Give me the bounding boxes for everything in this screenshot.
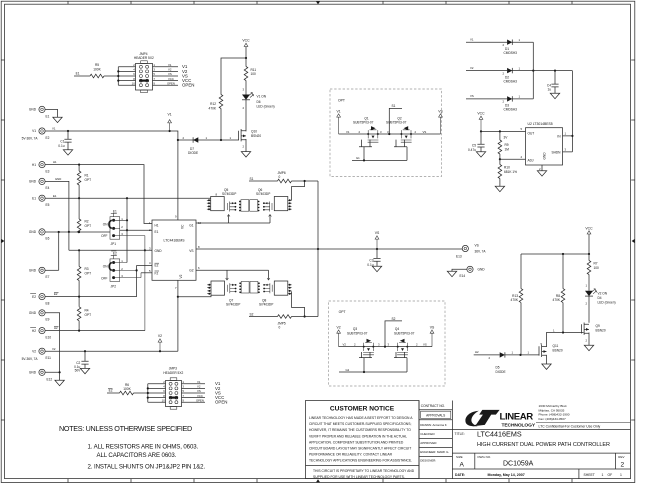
svg-text:OFF: OFF — [101, 276, 107, 280]
svg-text:Q11: Q11 — [553, 344, 559, 348]
svg-text:SIZE: SIZE — [456, 455, 463, 459]
svg-text:A: A — [460, 461, 465, 468]
wire E1 riser to pin2 — [126, 198, 128, 262]
wire 3V rail — [480, 127, 526, 139]
svg-text:H1: H1 — [32, 163, 36, 167]
terminal E5 — [32, 195, 50, 207]
svg-text:OF: OF — [608, 473, 613, 477]
svg-text:1u: 1u — [547, 87, 551, 91]
transistor Q11 — [539, 333, 563, 365]
svg-text:Fax: (408)434-0507: Fax: (408)434-0507 — [539, 417, 566, 421]
svg-text:HEADER 5X2: HEADER 5X2 — [163, 371, 183, 375]
svg-text:CMDSH3: CMDSH3 — [504, 79, 518, 83]
svg-text:R7: R7 — [594, 261, 598, 265]
node VS flag (OPT2) — [430, 325, 435, 346]
svg-text:D5: D5 — [496, 365, 500, 369]
svg-text:JP1: JP1 — [111, 242, 117, 246]
svg-text:GND: GND — [29, 371, 37, 375]
wire — [45, 109, 57, 117]
svg-text:E14: E14 — [460, 274, 466, 278]
svg-text:V2 ON: V2 ON — [598, 292, 608, 296]
wire E2bar riser — [136, 265, 138, 296]
resistor R1 — [77, 165, 91, 199]
svg-text:V1: V1 — [470, 37, 474, 41]
svg-text:OPEN: OPEN — [182, 83, 194, 88]
svg-text:R11: R11 — [251, 68, 257, 72]
wire Q5 right bus — [292, 181, 305, 200]
svg-text:OPT: OPT — [85, 313, 92, 317]
svg-text:E1: E1 — [155, 230, 159, 234]
svg-text:VCC: VCC — [197, 394, 203, 398]
svg-text:V2: V2 — [343, 342, 347, 346]
svg-text:V1: V1 — [337, 109, 341, 113]
node S2 stub (OPT) — [385, 317, 402, 347]
capacitor C4 — [547, 71, 559, 94]
svg-text:SUB75P03-07: SUB75P03-07 — [347, 331, 368, 335]
svg-text:1: 1 — [602, 473, 604, 477]
svg-text:VCC: VCC — [168, 77, 174, 81]
svg-text:E8: E8 — [46, 301, 50, 305]
svg-text:E2: E2 — [109, 389, 113, 393]
svg-text:V1: V1 — [32, 129, 36, 133]
svg-text:S2: S2 — [250, 312, 254, 316]
svg-text:R9: R9 — [505, 143, 509, 147]
svg-text:E12: E12 — [47, 378, 53, 382]
node V1 flag — [168, 113, 172, 131]
diode D1 — [466, 37, 533, 55]
notes text — [59, 424, 205, 471]
wire H2/V2 line — [45, 326, 145, 332]
IC U2 LT3014BES5 — [526, 122, 573, 171]
svg-text:E2: E2 — [113, 252, 117, 256]
svg-text:DIODE: DIODE — [188, 151, 198, 155]
svg-text:VC: VC — [181, 224, 185, 229]
wire pin7 V2 riser — [177, 280, 179, 351]
wire U2 in — [571, 71, 573, 152]
node S1 stub (OPT) — [389, 104, 402, 134]
svg-text:E2: E2 — [32, 295, 36, 299]
svg-text:CMDSH3: CMDSH3 — [504, 51, 518, 55]
svg-text:VS: VS — [438, 109, 443, 113]
jumper JP2 — [101, 251, 141, 288]
svg-text:E9: E9 — [46, 318, 50, 322]
svg-text:APPROVED:: APPROVED: — [420, 441, 437, 445]
node V2 flag (OPT) — [337, 325, 341, 346]
svg-text:VCC: VCC — [242, 39, 250, 43]
wire G2 — [196, 270, 270, 280]
wire E6-E7 — [58, 232, 60, 270]
wire pin2 line — [120, 229, 152, 231]
transistor Q3 — [347, 327, 374, 355]
wire H1 net — [45, 160, 152, 223]
svg-text:OPEN: OPEN — [215, 400, 227, 405]
node VCC (right) — [585, 226, 593, 254]
svg-text:D7: D7 — [190, 147, 194, 151]
svg-text:LED (Green): LED (Green) — [598, 301, 616, 305]
node VCC (U2) — [477, 112, 485, 132]
svg-text:V2: V2 — [52, 347, 56, 351]
svg-text:V1 ON: V1 ON — [257, 94, 267, 98]
svg-text:100K: 100K — [93, 67, 101, 71]
resistor R2 — [77, 198, 91, 233]
resistor R12 — [209, 95, 223, 141]
wire V2 source — [45, 347, 178, 353]
wire GND to E12 — [45, 313, 60, 373]
svg-text:H2: H2 — [32, 329, 36, 333]
svg-text:E2: E2 — [46, 136, 50, 140]
svg-text:VERIFY PROPER AND RELIABLE OPE: VERIFY PROPER AND RELIABLE OPERATION IN … — [309, 434, 407, 438]
wire Q7 feed — [178, 295, 211, 297]
svg-text:E5: E5 — [46, 203, 50, 207]
node VCC top — [242, 39, 250, 60]
node S1 / jumper JMP6 — [249, 171, 318, 183]
capacitor C1 — [58, 131, 71, 150]
svg-text:S1: S1 — [392, 104, 396, 108]
resistor R10 — [498, 159, 517, 186]
ground — [53, 117, 62, 122]
svg-text:100: 100 — [251, 72, 257, 76]
svg-text:ALL CAPACITORS ARE 0603.: ALL CAPACITORS ARE 0603. — [97, 452, 177, 459]
svg-text:ADJ: ADJ — [528, 159, 534, 163]
svg-text:OPT: OPT — [85, 224, 92, 228]
svg-text:V1: V1 — [346, 130, 350, 134]
diode D5 — [496, 352, 506, 374]
node S2 / jumper JMP5 — [249, 312, 318, 329]
svg-text:E13: E13 — [456, 255, 462, 259]
svg-text:BSN20: BSN20 — [596, 329, 606, 333]
svg-text:100K: 100K — [123, 387, 131, 391]
title block — [419, 401, 631, 479]
svg-text:THIS CIRCUIT IS PROPRIETARY TO: THIS CIRCUIT IS PROPRIETARY TO LINEAR TE… — [313, 469, 415, 473]
wire diode bus — [532, 42, 534, 99]
svg-text:SUPPLIED FOR USE WITH LINEAR T: SUPPLIED FOR USE WITH LINEAR TECHNOLOGY … — [313, 475, 405, 479]
svg-text:HIGH CURRENT DUAL POWER PATH C: HIGH CURRENT DUAL POWER PATH CONTROLLER — [477, 442, 610, 448]
ground — [63, 150, 72, 155]
svg-text:CIRCUIT THAT MEETS CUSTOMER-SU: CIRCUIT THAT MEETS CUSTOMER-SUPPLIED SPE… — [309, 422, 411, 426]
svg-text:TITLE:: TITLE: — [455, 432, 465, 436]
svg-text:ENGINEER: MARK G.: ENGINEER: MARK G. — [420, 450, 449, 454]
svg-text:V2: V2 — [179, 274, 183, 278]
capacitor C5 — [468, 131, 485, 151]
svg-text:HOWEVER, IT REMAINS THE CUSTOM: HOWEVER, IT REMAINS THE CUSTOMERS RESPON… — [309, 428, 411, 432]
ground — [537, 171, 546, 176]
wire pin3 GND — [69, 249, 152, 251]
wire Q7 right bus — [292, 291, 306, 317]
transistor Q9 — [553, 323, 606, 346]
svg-text:E11: E11 — [46, 356, 52, 360]
svg-text:GND: GND — [29, 180, 37, 184]
customer notice box — [306, 401, 420, 480]
svg-text:OPT: OPT — [85, 272, 92, 276]
wire GND bus — [45, 177, 70, 250]
header JMP3 — [147, 367, 228, 410]
svg-text:E4: E4 — [46, 186, 50, 190]
svg-text:LINEAR TECHNOLOGY HAS MADE A B: LINEAR TECHNOLOGY HAS MADE A BEST EFFORT… — [309, 416, 413, 420]
svg-text:GND: GND — [155, 249, 163, 253]
svg-text:NOTES: UNLESS OTHERWISE SPECI: NOTES: UNLESS OTHERWISE SPECIFIED — [59, 424, 192, 433]
svg-text:V1: V1 — [168, 113, 172, 117]
wire VCC rail right — [521, 253, 590, 255]
ground — [542, 364, 551, 369]
svg-text:DRAWN: Antonina K: DRAWN: Antonina K — [420, 423, 446, 427]
resistor R6 — [107, 383, 148, 395]
LED D4 — [585, 289, 616, 323]
wire S1-S2 vertical — [317, 181, 319, 317]
svg-text:D6: D6 — [257, 100, 261, 104]
svg-text:0.1u: 0.1u — [58, 144, 64, 148]
svg-text:R2: R2 — [85, 220, 89, 224]
svg-text:E2: E2 — [155, 264, 159, 268]
terminal E2 — [22, 128, 50, 141]
wire G1 — [196, 215, 271, 224]
svg-text:E1: E1 — [46, 114, 50, 118]
ground — [447, 271, 456, 276]
svg-text:OPEN: OPEN — [196, 398, 204, 402]
svg-text:1M: 1M — [505, 147, 510, 151]
svg-text:VS: VS — [168, 72, 172, 76]
ground — [550, 93, 559, 98]
transistor Q5 group — [207, 188, 292, 212]
svg-text:OUT: OUT — [528, 131, 535, 135]
wire ADJ — [499, 155, 526, 160]
diode D7 — [188, 137, 198, 155]
svg-text:LTC4416EMS: LTC4416EMS — [163, 239, 185, 243]
resistor R11 — [244, 58, 256, 95]
svg-text:E3: E3 — [46, 169, 50, 173]
svg-text:GND: GND — [543, 152, 547, 160]
wire pin5 line — [141, 272, 152, 274]
svg-text:JP2: JP2 — [111, 284, 117, 288]
svg-text:2. INSTALL SHUNTS ON JP1&JP2 P: 2. INSTALL SHUNTS ON JP1&JP2 PIN 1&2. — [88, 464, 206, 471]
svg-text:APPROVALS: APPROVALS — [426, 414, 445, 418]
transistor Q4 — [394, 327, 415, 355]
svg-text:470K: 470K — [553, 298, 561, 302]
wire OPT top — [339, 130, 441, 135]
svg-text:DIODE: DIODE — [496, 370, 506, 374]
svg-text:GND: GND — [29, 311, 37, 315]
ground — [476, 152, 485, 157]
svg-text:GND: GND — [29, 230, 37, 234]
transistor Q1 — [353, 117, 379, 143]
wire H2 line — [474, 350, 540, 360]
LED D6 — [242, 87, 275, 129]
node VS flag (OPT) — [438, 109, 443, 134]
terminal E12 — [29, 369, 61, 381]
svg-text:VS: VS — [470, 94, 474, 98]
svg-text:R8: R8 — [556, 294, 560, 298]
svg-text:APPLICATION. COMPONENT SUBSTI: APPLICATION. COMPONENT SUBSTITUTION AND … — [309, 440, 404, 444]
svg-text:Monday, May 14, 2007: Monday, May 14, 2007 — [488, 473, 525, 477]
svg-text:G2: G2 — [346, 368, 350, 372]
terminal E7 — [29, 267, 59, 279]
wire G2 gate bus (OPT) — [339, 352, 407, 373]
svg-text:DWG NO.: DWG NO. — [478, 455, 492, 459]
resistor R8 — [553, 254, 565, 333]
svg-text:CONTRACT NO.: CONTRACT NO. — [421, 404, 445, 408]
terminal E6 — [29, 229, 50, 241]
svg-text:CMDSH3: CMDSH3 — [504, 108, 518, 112]
svg-text:E1: E1 — [32, 196, 36, 200]
svg-text:R4: R4 — [85, 308, 89, 312]
node VS flag / capacitor C3 — [367, 231, 380, 267]
svg-text:Si7403DP: Si7403DP — [259, 303, 273, 307]
terminal E14 — [452, 266, 485, 278]
svg-text:V1: V1 — [168, 63, 172, 67]
svg-text:E10: E10 — [46, 335, 52, 339]
svg-text:OPEN: OPEN — [167, 81, 175, 85]
svg-text:OFF: OFF — [101, 234, 107, 238]
wire pin4 line — [137, 264, 152, 266]
svg-text:100: 100 — [594, 266, 600, 270]
svg-text:V2: V2 — [470, 66, 474, 70]
svg-text:H1: H1 — [155, 223, 159, 227]
svg-text:TECHNOLOGY: TECHNOLOGY — [502, 423, 536, 429]
svg-text:PERFORMANCE OR RELIABILITY. C: PERFORMANCE OR RELIABILITY. CONTACT LINE… — [309, 453, 393, 457]
svg-text:5V-36V, 7A: 5V-36V, 7A — [22, 357, 39, 361]
svg-text:U2 LT3014BES5: U2 LT3014BES5 — [528, 122, 553, 126]
svg-text:E6: E6 — [46, 237, 50, 241]
wire VS rail — [196, 248, 462, 250]
svg-text:0: 0 — [279, 175, 281, 179]
resistor R5 — [74, 63, 118, 78]
wire OPT bottom — [339, 342, 432, 347]
svg-text:Si7403DP: Si7403DP — [222, 192, 236, 196]
svg-text:R12: R12 — [210, 102, 216, 106]
svg-text:G1: G1 — [189, 223, 193, 227]
capacitor C2 — [74, 351, 89, 372]
svg-text:470K: 470K — [511, 298, 519, 302]
svg-text:SUB75P03-07: SUB75P03-07 — [353, 121, 374, 125]
svg-text:50V: 50V — [75, 369, 82, 373]
ground — [372, 266, 381, 271]
svg-text:5V-36V, 7A: 5V-36V, 7A — [22, 137, 39, 141]
svg-text:LED (Green): LED (Green) — [257, 104, 275, 108]
svg-text:D4: D4 — [598, 296, 602, 300]
svg-text:SHDN: SHDN — [551, 150, 561, 154]
svg-text:GND: GND — [29, 108, 37, 112]
wire V1 net — [45, 127, 178, 220]
svg-text:CHECKED:: CHECKED: — [420, 432, 435, 436]
svg-text:HEADER 5X2: HEADER 5X2 — [134, 56, 154, 60]
Linear Technology logo — [465, 404, 630, 428]
svg-text:BSN20: BSN20 — [251, 134, 261, 138]
svg-text:R13: R13 — [512, 294, 518, 298]
svg-text:H1: H1 — [53, 160, 57, 164]
svg-text:GND: GND — [478, 268, 486, 272]
svg-text:VS: VS — [475, 244, 479, 248]
OPT box bottom — [329, 301, 445, 386]
svg-text:Si7403DP: Si7403DP — [226, 303, 240, 307]
node V2 flag — [158, 334, 162, 351]
svg-text:VS: VS — [423, 130, 427, 134]
terminal E11 — [22, 348, 52, 361]
ground — [495, 186, 504, 191]
jumper JP1 — [101, 210, 146, 331]
svg-text:VCC: VCC — [477, 112, 485, 116]
svg-text:V1: V1 — [52, 127, 56, 131]
svg-text:E1: E1 — [76, 72, 80, 76]
terminal E9 — [29, 310, 50, 322]
resistor R13 — [511, 254, 523, 355]
svg-text:ON: ON — [103, 265, 108, 269]
svg-text:SHEET: SHEET — [584, 473, 595, 477]
svg-text:CUSTOMER NOTICE: CUSTOMER NOTICE — [330, 405, 395, 412]
svg-text:2: 2 — [621, 462, 625, 469]
svg-text:VS: VS — [197, 389, 201, 393]
terminal E10 — [30, 328, 51, 340]
ground — [80, 368, 89, 373]
svg-text:1: 1 — [620, 473, 622, 477]
header JMP4 — [117, 52, 194, 93]
svg-text:F2: F2 — [155, 271, 159, 275]
svg-text:Q9: Q9 — [596, 324, 600, 328]
svg-text:REV: REV — [618, 455, 624, 459]
ground — [55, 380, 64, 385]
svg-text:V2: V2 — [32, 349, 36, 353]
svg-text:V2: V2 — [168, 68, 172, 72]
svg-text:G2: G2 — [189, 269, 193, 273]
svg-text:0: 0 — [279, 326, 281, 330]
svg-text:LTC Confidential-For Customer: LTC Confidential-For Customer Use Only — [539, 424, 601, 428]
wire E1 net — [45, 194, 211, 199]
resistor R3 — [77, 249, 91, 296]
svg-text:VS: VS — [430, 325, 435, 329]
svg-text:GND: GND — [55, 177, 61, 181]
terminal E8 — [30, 294, 49, 306]
ground — [584, 345, 593, 350]
svg-text:OPT: OPT — [339, 310, 346, 314]
resistor R7 — [585, 254, 599, 291]
svg-text:S1: S1 — [250, 177, 254, 181]
svg-text:Si7403DP: Si7403DP — [256, 192, 270, 196]
svg-text:E1: E1 — [53, 194, 57, 198]
svg-text:681K 1%: 681K 1% — [504, 170, 517, 174]
svg-text:V2: V2 — [197, 385, 201, 389]
node V1 flag (OPT) — [337, 109, 341, 134]
svg-text:0.47u: 0.47u — [468, 148, 476, 152]
svg-text:G1: G1 — [356, 156, 360, 160]
svg-text:V1: V1 — [197, 380, 201, 384]
wire G1 gate bus (OPT) — [352, 140, 407, 162]
svg-text:TECHNOLOGY APPLICATIONS ENGINE: TECHNOLOGY APPLICATIONS ENGINEERING FOR … — [309, 459, 412, 463]
svg-text:DATE:: DATE: — [455, 473, 465, 477]
svg-text:10: 10 — [162, 398, 166, 402]
svg-text:VCC: VCC — [585, 226, 593, 230]
svg-text:VS: VS — [423, 342, 427, 346]
resistor R9 — [498, 131, 509, 159]
transistor Q7 group — [207, 281, 291, 307]
svg-text:R3: R3 — [85, 267, 89, 271]
diode D2 — [466, 66, 572, 84]
svg-text:H2: H2 — [475, 350, 479, 354]
svg-text:E1: E1 — [113, 210, 117, 214]
svg-text:DC1059A: DC1059A — [503, 460, 534, 467]
svg-text:VS: VS — [375, 231, 380, 235]
wire VCC branch — [221, 58, 246, 95]
IC U1 LTC4416EMS — [149, 215, 202, 290]
svg-text:S2: S2 — [392, 317, 396, 321]
OPT box top — [330, 89, 442, 177]
transistor Q10 — [239, 129, 262, 152]
svg-text:36V, 7A: 36V, 7A — [475, 250, 487, 254]
svg-text:10: 10 — [132, 81, 136, 85]
svg-text:CIRCUIT BOARD LAYOUT MAY SIGNI: CIRCUIT BOARD LAYOUT MAY SIGNIFICANTLY A… — [309, 447, 411, 451]
transistor Q2 — [386, 117, 412, 143]
svg-text:R10: R10 — [504, 166, 510, 170]
svg-text:E7: E7 — [46, 275, 50, 279]
wire GND jumper line — [45, 231, 110, 233]
terminal E4 — [29, 178, 50, 190]
